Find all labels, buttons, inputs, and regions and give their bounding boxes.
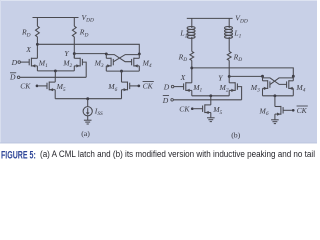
wire left L1-RD lead (b) [191,38,193,51]
terminal D input (b) [171,85,174,88]
inductor L1 left [187,26,195,38]
svg-text:CK: CK [20,82,31,91]
transistor M5 [47,82,55,92]
terminal Dbar input (a) [17,76,20,79]
wire right RD to Y (b) [228,60,230,76]
node Y (a) [73,52,76,55]
wire M3 drain from XL (b) [262,76,264,81]
wire M1 source down (a) [36,66,38,71]
transistor M3b [263,80,270,90]
wire M5 drain up (a) [54,71,56,82]
wire M1 source down (b) [191,90,193,95]
node Q common (b) [273,94,276,97]
wire M4 gate to M3 drain cross (a) [106,55,131,62]
wire M2 gate to Dbar (a) [82,62,86,77]
wire tail wire to ISS (a) [87,99,89,107]
svg-text:(b): (b) [231,130,240,139]
wire M2 source down (b) [228,90,230,95]
panel left edge highlight [0,0,1,143]
resistor RD left (b) [190,51,194,60]
panel bottom edge shade [0,142,317,143]
svg-text:D: D [9,73,16,82]
wire M4 source down (b) [292,88,294,95]
transistor M4b [287,80,294,90]
node Q common (a) [120,70,123,73]
wire M3-M4 common source (b) [263,95,294,97]
wire M3 source down (a) [105,66,107,71]
node Y (b) [228,75,231,78]
wire left RD bottom lead to X (a) [36,37,38,59]
wire M2 source down (a) [73,66,75,71]
wire VDD rail (a) [33,17,79,19]
svg-text:(a): (a) [81,129,90,138]
wire left L1 top lead (b) [191,18,193,26]
wire left RD top lead (a) [36,18,38,27]
transistor M4 [132,58,140,68]
wire M3 source down (b) [262,88,264,95]
transistor M2b [229,82,237,92]
wire M6 gate to CKbar (a) [130,85,138,87]
node tail node (a) [86,97,89,100]
wire M5 source down (b) [210,113,212,118]
ground tail ground (a) [84,120,92,124]
wire M4 drain from XR (a) [138,54,140,58]
current source ISS [83,107,92,116]
wire D to M1 gate (a) [21,61,30,63]
svg-text:X: X [25,45,31,54]
svg-text:D: D [163,82,170,91]
wire right RD top lead (a) [73,18,75,27]
transistor M1 [29,58,37,68]
resistor RD right (a) [72,26,76,37]
svg-text:X: X [180,73,186,82]
node P common (a) [54,69,57,72]
wire M6 gate to CKbar (b) [283,109,292,111]
transistor M1b [184,82,192,92]
wire Y to M3 drain (b) [229,75,262,77]
transistor M2 [74,58,82,68]
wire M5 drain up (b) [210,96,212,105]
transistor M6 [122,82,130,92]
node X (b) [190,66,193,69]
svg-text:CK: CK [143,82,154,91]
wire M3 drain from XL (a) [105,54,107,58]
wire M1-M2 common source (a) [37,70,74,72]
transistor M6b [275,106,283,116]
terminal D input (a) [18,61,21,64]
wire right L1-RD lead (b) [228,38,230,51]
wire M2 drain up to Y (b) [228,76,230,82]
resistor RD right (b) [227,51,231,60]
node XR cross (a) [138,52,141,55]
wire M4 source down (a) [138,66,140,71]
wire X to M4 drain (a) [37,44,139,54]
svg-text:D: D [11,58,18,67]
svg-text:CK: CK [179,104,190,113]
ground M6 ground (b) [271,120,279,124]
wire M5-M6 common source (a) [55,98,121,100]
panel top edge highlight [0,0,317,1]
wire ISS to ground (a) [87,116,89,120]
wire M6 drain up (b) [274,96,276,107]
svg-text:CK: CK [297,106,308,115]
wire VDD rail (b) [187,17,233,19]
wire left RD to X (b) [191,60,193,82]
wire M6 source down (a) [121,90,123,99]
wire CK to M5 gate (b) [194,108,203,110]
wire M2 gate to Dbar (b) [237,87,241,100]
resistor RD left (a) [36,26,40,37]
node X (a) [36,43,39,46]
wire M3 gate to M4 drain cross (b) [270,78,293,85]
svg-text:D: D [162,96,169,105]
terminal CK input (b) [191,107,194,110]
terminal CKbar input (a) [137,85,140,88]
wire CK to M5 gate (a) [38,85,47,87]
wire Dbar line (a) [20,76,86,78]
wire right L1 top lead (b) [228,18,230,26]
wire M1-M2 common source (b) [192,95,229,97]
wire X to M4 drain (b) [192,68,293,76]
terminal Dbar input (b) [171,99,174,102]
wire Y to M3 drain (a) [74,53,106,55]
wire M6 drain up (a) [121,71,123,82]
wire M6 source down (b) [274,114,276,120]
node XL cross (a) [105,52,108,55]
svg-text:(a) A CML latch and (b) its mo: (a) A CML latch and (b) its modified ver… [40,149,315,159]
background panel [0,0,317,143]
svg-text:FIGURE 5:: FIGURE 5: [1,150,36,159]
transistor M5b [203,104,211,114]
wire Dbar line (b) [173,99,241,101]
terminal CK input (a) [36,85,39,88]
terminal CKbar input (b) [292,109,295,112]
ground M5 ground (b) [207,118,215,122]
wire M4 gate to M3 drain cross (b) [263,78,287,85]
wire M5 source down (a) [54,90,56,99]
node XR cross (b) [292,75,295,78]
node P common (b) [209,94,212,97]
wire D to M1 gate (b) [174,86,184,88]
node XL cross (b) [261,75,264,78]
transistor M3 [106,58,113,68]
wire M3 gate to M4 drain cross (a) [114,55,140,62]
inductor L1 right [225,26,233,38]
wire M2 drain up to Y (a) [73,54,75,59]
wire right RD bottom lead to Y (a) [73,37,75,59]
wire M4 drain from XR (b) [292,76,294,81]
wire M3-M4 common source (a) [106,70,139,72]
